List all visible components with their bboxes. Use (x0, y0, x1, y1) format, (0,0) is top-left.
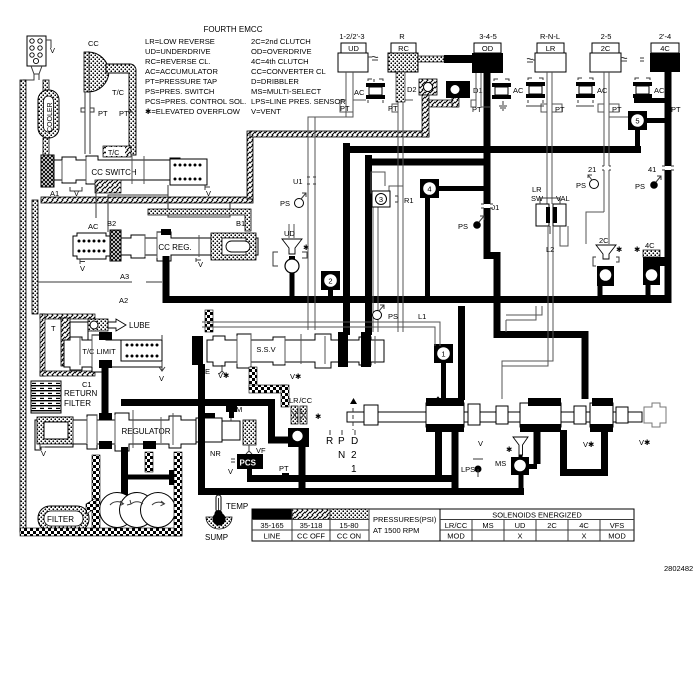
svg-text:T/C LIMIT: T/C LIMIT (82, 347, 116, 356)
solenoid MS (495, 437, 529, 475)
pipe gray jogs above manual valve (506, 306, 542, 332)
svg-text:A3: A3 (120, 272, 129, 281)
ssv vents (218, 365, 302, 381)
table solenoids energized (440, 509, 634, 541)
svg-text:A2: A2 (119, 296, 128, 305)
svg-text:V: V (228, 467, 233, 476)
cc switch outlet pipes down (96, 185, 230, 232)
svg-text:1: 1 (351, 464, 357, 475)
svg-text:PT: PT (119, 109, 129, 118)
manual valve bottom caps heavy (426, 424, 613, 432)
svg-text:UD=UNDERDRIVE: UD=UNDERDRIVE (145, 47, 211, 56)
svg-text:PT: PT (388, 104, 398, 113)
cc switch valve body (54, 156, 180, 184)
svg-text:4C=4th CLUTCH: 4C=4th CLUTCH (251, 57, 309, 66)
temp sensor (215, 495, 249, 518)
clutch RC box (388, 43, 418, 72)
svg-text:PT: PT (671, 105, 681, 114)
svg-text:MOD: MOD (447, 532, 465, 541)
filter capsule (38, 506, 89, 531)
svg-text:CC=CONVERTER CL: CC=CONVERTER CL (251, 67, 326, 76)
svg-text:2C: 2C (601, 44, 611, 53)
accumulator AC (UD) (354, 79, 385, 103)
table pressures (252, 509, 440, 541)
svg-text:✱: ✱ (616, 245, 623, 254)
svg-text:CC OFF: CC OFF (297, 532, 325, 541)
PT tick converter (128, 109, 133, 112)
manual valve right tail (light) (644, 403, 666, 427)
svg-text:3-4-5: 3-4-5 (479, 32, 497, 41)
svg-text:PS: PS (388, 312, 398, 321)
stub M to NR (229, 402, 234, 418)
svg-text:V=VENT: V=VENT (251, 107, 281, 116)
legend left column (145, 37, 246, 116)
line M heavy (T/C limit manifold) (121, 403, 291, 444)
line H_top1 heavy (od to 5) (347, 143, 642, 335)
svg-text:CC: CC (88, 39, 99, 48)
solenoid 4C (598, 241, 669, 300)
svg-text:NR: NR (210, 449, 221, 458)
svg-text:V: V (41, 449, 46, 458)
svg-text:OD: OD (482, 44, 494, 53)
converter in pipe (thin) from cc switch (81, 92, 94, 154)
check ball 5 (609, 111, 668, 147)
svg-text:FILTER: FILTER (47, 515, 74, 524)
svg-text:LPS: LPS (461, 465, 475, 474)
cooler outlet pipe (dotted) (43, 138, 49, 160)
svg-text:S.S.V: S.S.V (256, 345, 275, 354)
regulator boost sleeve (dotted) (37, 417, 73, 458)
clutch OD box (applied, black) (472, 43, 503, 73)
svg-text:SOLENOIDS ENERGIZED: SOLENOIDS ENERGIZED (492, 511, 582, 520)
selector positions R P D N 2 1 (326, 436, 358, 475)
svg-text:LR /CC: LR /CC (289, 396, 313, 405)
svg-text:21: 21 (588, 165, 596, 174)
svg-text:PT=PRESSURE TAP: PT=PRESSURE TAP (145, 77, 217, 86)
line solenoid LR/CC down heavy (299, 446, 306, 492)
svg-text:E: E (205, 367, 210, 376)
selector indicator dashed (352, 408, 354, 430)
svg-text:35-118: 35-118 (300, 521, 323, 530)
svg-text:MS: MS (495, 459, 506, 468)
svg-text:FOURTH EMCC: FOURTH EMCC (204, 25, 263, 34)
svg-text:AC: AC (513, 86, 524, 95)
svg-text:✱=ELEVATED OVERFLOW: ✱=ELEVATED OVERFLOW (145, 107, 241, 116)
orifice 21 on 2C pipe (602, 166, 611, 170)
line below valve to H_B (452, 430, 459, 492)
svg-text:M: M (236, 405, 242, 414)
svg-text:2802482: 2802482 (664, 564, 693, 573)
valve LR SW VAL (531, 185, 570, 234)
line H_top2 heavy (369, 155, 487, 335)
line below valve to H_A (435, 430, 442, 476)
svg-text:AC: AC (88, 222, 99, 231)
clutch 4C box (applied, black) (640, 43, 680, 72)
svg-text:AC: AC (654, 86, 665, 95)
svg-text:R: R (399, 32, 405, 41)
converter out pipe (stippled) to cc switch (106, 64, 136, 155)
cooler (38, 90, 59, 138)
vent breather (23, 36, 55, 80)
svg-text:PT: PT (555, 105, 565, 114)
svg-text:SUMP: SUMP (205, 533, 228, 542)
svg-text:PS=PRES. SWITCH: PS=PRES. SWITCH (145, 87, 214, 96)
pressure switch PS (41) (635, 165, 661, 191)
svg-text:PRESSURES(PSI): PRESSURES(PSI) (373, 515, 437, 524)
svg-text:V✱: V✱ (290, 372, 302, 381)
cc reg valve body (121, 232, 258, 269)
svg-text:2C: 2C (547, 521, 557, 530)
svg-text:PS: PS (280, 199, 290, 208)
svg-text:REGULATOR: REGULATOR (121, 427, 170, 436)
svg-text:RETURN: RETURN (64, 389, 98, 398)
pump feed heavy line (121, 447, 128, 495)
ssv spool land A (338, 332, 348, 367)
svg-text:C1: C1 (82, 380, 92, 389)
hatched line to D2 (top horizontal) (250, 131, 429, 137)
lube enclosure hatched walls (40, 314, 95, 376)
cooler feed pipe (dotted) (43, 80, 49, 92)
svg-text:2C: 2C (599, 236, 609, 245)
manual valve body (347, 397, 642, 427)
pipe RC lower (398, 226, 403, 332)
pipe 2C solenoid feed (586, 212, 604, 244)
line from PCS heavy (247, 469, 252, 478)
solenoid UD funnel (273, 224, 310, 300)
pressure switch PS (L1) (373, 305, 399, 321)
svg-text:✱: ✱ (506, 445, 513, 454)
svg-text:CC ON: CC ON (337, 532, 361, 541)
orifice U1 (293, 177, 316, 186)
svg-text:LR: LR (532, 185, 542, 194)
cc reg right sleeve (stippled) (211, 233, 256, 260)
left return pipe (dotted) (20, 80, 26, 532)
svg-text:4C: 4C (579, 521, 589, 530)
svg-text:LINE: LINE (264, 532, 281, 541)
svg-text:TEMP: TEMP (226, 502, 248, 511)
svg-text:✱: ✱ (315, 412, 322, 421)
solenoid LR/CC (288, 396, 322, 447)
sensor LPS (461, 459, 483, 477)
svg-text:PT: PT (279, 464, 289, 473)
svg-text:2: 2 (328, 277, 332, 286)
line RC to OD (dotted then solid) (418, 56, 444, 62)
svg-text:FILTER: FILTER (64, 399, 91, 408)
svg-text:PT: PT (472, 105, 482, 114)
svg-text:V✱: V✱ (639, 438, 651, 447)
manual valve top caps heavy (426, 398, 613, 406)
svg-text:MS: MS (482, 521, 493, 530)
svg-text:4C: 4C (645, 241, 655, 250)
svg-text:LR/CC: LR/CC (445, 521, 468, 530)
svg-text:LPS=LINE PRES. SENSOR: LPS=LINE PRES. SENSOR (251, 97, 346, 106)
solenoid 2C funnel (593, 236, 623, 300)
svg-text:L2: L2 (546, 245, 554, 254)
svg-text:35-165: 35-165 (260, 521, 283, 530)
svg-text:R-N-L: R-N-L (540, 32, 560, 41)
svg-text:VFS: VFS (610, 521, 625, 530)
svg-text:VF: VF (256, 446, 266, 455)
regulator ports heavy (99, 413, 215, 449)
line OD trunk heavy (484, 72, 589, 399)
regulator valve body (35, 410, 196, 451)
svg-text:U1: U1 (293, 177, 303, 186)
svg-text:PS: PS (576, 181, 586, 190)
accumulator AC (LR) (526, 78, 545, 106)
svg-text:15-80: 15-80 (339, 521, 358, 530)
svg-text:AC: AC (354, 88, 365, 97)
svg-text:2: 2 (351, 450, 357, 461)
svg-text:LUBE: LUBE (129, 321, 150, 330)
svg-text:B1: B1 (236, 219, 245, 228)
accumulator AC (cc) (73, 233, 110, 273)
check ball 1 (434, 344, 453, 400)
svg-text:LR=LOW REVERSE: LR=LOW REVERSE (145, 37, 215, 46)
clutch UD box (338, 43, 378, 72)
line 4C trunk heavy (665, 72, 672, 303)
svg-text:1-2/2'-3: 1-2/2'-3 (339, 32, 364, 41)
line C1 heavy (102, 366, 109, 415)
pressure tap PT (bottom) (279, 464, 289, 478)
cc reg left plug (dark block) (110, 230, 121, 261)
svg-text:T/C: T/C (108, 150, 119, 157)
svg-text:4: 4 (427, 185, 431, 194)
torque converter T/C (84, 52, 125, 97)
line A2 trunk heavy (main line pressure) (161, 229, 171, 235)
svg-text:PT: PT (612, 105, 622, 114)
svg-text:V: V (478, 439, 483, 448)
pipe RC down (392, 72, 413, 332)
svg-text:PT: PT (340, 104, 350, 113)
svg-text:CC REG.: CC REG. (158, 243, 191, 252)
line below valve (533) to MS (534, 430, 541, 464)
check ball 4 (420, 179, 485, 299)
svg-text:D: D (351, 436, 358, 447)
check ball 3 assembly (371, 172, 414, 332)
cc switch spring chamber (170, 159, 211, 198)
cc switch hatched land T/C (95, 146, 131, 193)
dribbler D1 (446, 81, 483, 98)
legend right column (251, 37, 346, 116)
svg-text:D=DRIBBLER: D=DRIBBLER (251, 77, 299, 86)
svg-text:L1: L1 (418, 312, 426, 321)
svg-text:T: T (51, 324, 56, 333)
pipe LR down (541, 72, 562, 204)
noise reducer valve NR (196, 404, 242, 458)
line MS down heavy (519, 475, 524, 492)
svg-text:4C: 4C (660, 44, 670, 53)
svg-text:5: 5 (635, 117, 639, 126)
svg-text:X: X (517, 532, 522, 541)
accumulator AC (2C) (576, 78, 608, 106)
solenoid PCS (228, 454, 263, 476)
svg-text:V: V (159, 374, 164, 383)
svg-text:1: 1 (441, 350, 445, 359)
svg-text:3: 3 (379, 195, 383, 204)
line T1 risers to manual valve (458, 306, 465, 400)
converter feed pipe checkered to LR/CC (205, 310, 289, 407)
svg-text:P: P (338, 436, 345, 447)
accumulator AC (4C) (633, 78, 665, 103)
line 2C return loop (560, 430, 608, 476)
hatched supply line A1 (horizontal) (41, 197, 253, 203)
check ball 2 (321, 271, 340, 300)
clutch LR box (527, 43, 566, 72)
line H_B heavy (main return) (198, 364, 524, 495)
line L1 (202, 312, 440, 346)
pipe UD down (308, 72, 366, 330)
svg-text:UD: UD (348, 44, 359, 53)
svg-text:RC=REVERSE CL.: RC=REVERSE CL. (145, 57, 211, 66)
svg-text:B2: B2 (107, 219, 116, 228)
svg-text:OD=OVERDRIVE: OD=OVERDRIVE (251, 47, 312, 56)
pipe OD PT (471, 73, 490, 114)
svg-text:✱: ✱ (634, 245, 641, 254)
svg-text:MS=MULTI-SELECT: MS=MULTI-SELECT (251, 87, 321, 96)
pipe L2 (502, 226, 568, 399)
dotted loop pipe left of cc reg (32, 200, 38, 314)
lube orifice (88, 319, 150, 331)
ssv valve body (207, 334, 384, 368)
svg-text:RC: RC (398, 44, 409, 53)
clutch 2C box (590, 43, 627, 72)
line A3 thin (38, 281, 162, 283)
svg-text:2C=2nd CLUTCH: 2C=2nd CLUTCH (251, 37, 311, 46)
svg-text:AC: AC (597, 86, 608, 95)
svg-text:CC SWITCH: CC SWITCH (91, 168, 137, 177)
svg-text:AT 1500 RPM: AT 1500 RPM (373, 526, 419, 535)
svg-text:PCS: PCS (240, 459, 257, 468)
sump (205, 513, 232, 543)
svg-text:41: 41 (648, 165, 656, 174)
svg-text:T/C: T/C (112, 88, 125, 97)
svg-text:MOD: MOD (608, 532, 626, 541)
svg-text:R: R (326, 436, 333, 447)
suction pipe checkered loop (20, 452, 182, 536)
orifice 01 on OD trunk (481, 204, 493, 208)
dribbler D2 (396, 72, 437, 102)
svg-text:2'-4: 2'-4 (659, 32, 671, 41)
dribbler D2 hatched pipes (422, 82, 459, 137)
svg-text:2-5: 2-5 (601, 32, 612, 41)
svg-text:PT: PT (98, 109, 108, 118)
line B1 (dotted pipe) (148, 209, 251, 231)
svg-text:X: X (581, 532, 586, 541)
orifice 41 on 4C trunk (662, 166, 674, 170)
ssv spool land B (361, 332, 371, 367)
svg-text:V: V (198, 260, 203, 269)
pressure switch PS (21) (576, 165, 599, 190)
svg-text:AC=ACCUMULATOR: AC=ACCUMULATOR (145, 67, 218, 76)
svg-text:✱: ✱ (303, 243, 310, 252)
svg-text:V: V (50, 46, 55, 55)
svg-text:COOLER: COOLER (47, 102, 54, 132)
thermal valve T (51, 318, 88, 366)
pipe 2C down (586, 72, 619, 244)
pressure switch PS (01) (458, 203, 499, 231)
accumulator VF (dotted) (243, 420, 266, 455)
line H_A heavy (PCS to LPS manifold) (247, 475, 457, 482)
hatched riser right of cc switch (247, 131, 253, 199)
pressure switch PS (U1) (280, 193, 306, 208)
line AC 4C heavy (634, 98, 666, 103)
t/c limit valve (64, 332, 165, 383)
pump assembly (100, 493, 176, 528)
svg-text:PS: PS (458, 222, 468, 231)
port E heavy cap (192, 336, 203, 365)
return filter (31, 381, 98, 413)
pump bypass heavy branch (125, 475, 171, 480)
svg-text:LR: LR (546, 44, 556, 53)
svg-text:UD: UD (284, 229, 295, 238)
svg-text:V✱: V✱ (218, 371, 230, 380)
svg-text:PS: PS (635, 182, 645, 191)
cc switch left plug (dark block) (41, 155, 54, 187)
svg-text:R1: R1 (404, 196, 414, 205)
accumulator AC (OD) (492, 79, 524, 110)
svg-text:UD: UD (515, 521, 526, 530)
svg-text:D2: D2 (407, 85, 417, 94)
svg-text:N: N (338, 450, 345, 461)
svg-text:PCS=PRES. CONTROL SOL.: PCS=PRES. CONTROL SOL. (145, 97, 246, 106)
svg-text:V: V (80, 264, 85, 273)
svg-text:V✱: V✱ (583, 440, 595, 449)
